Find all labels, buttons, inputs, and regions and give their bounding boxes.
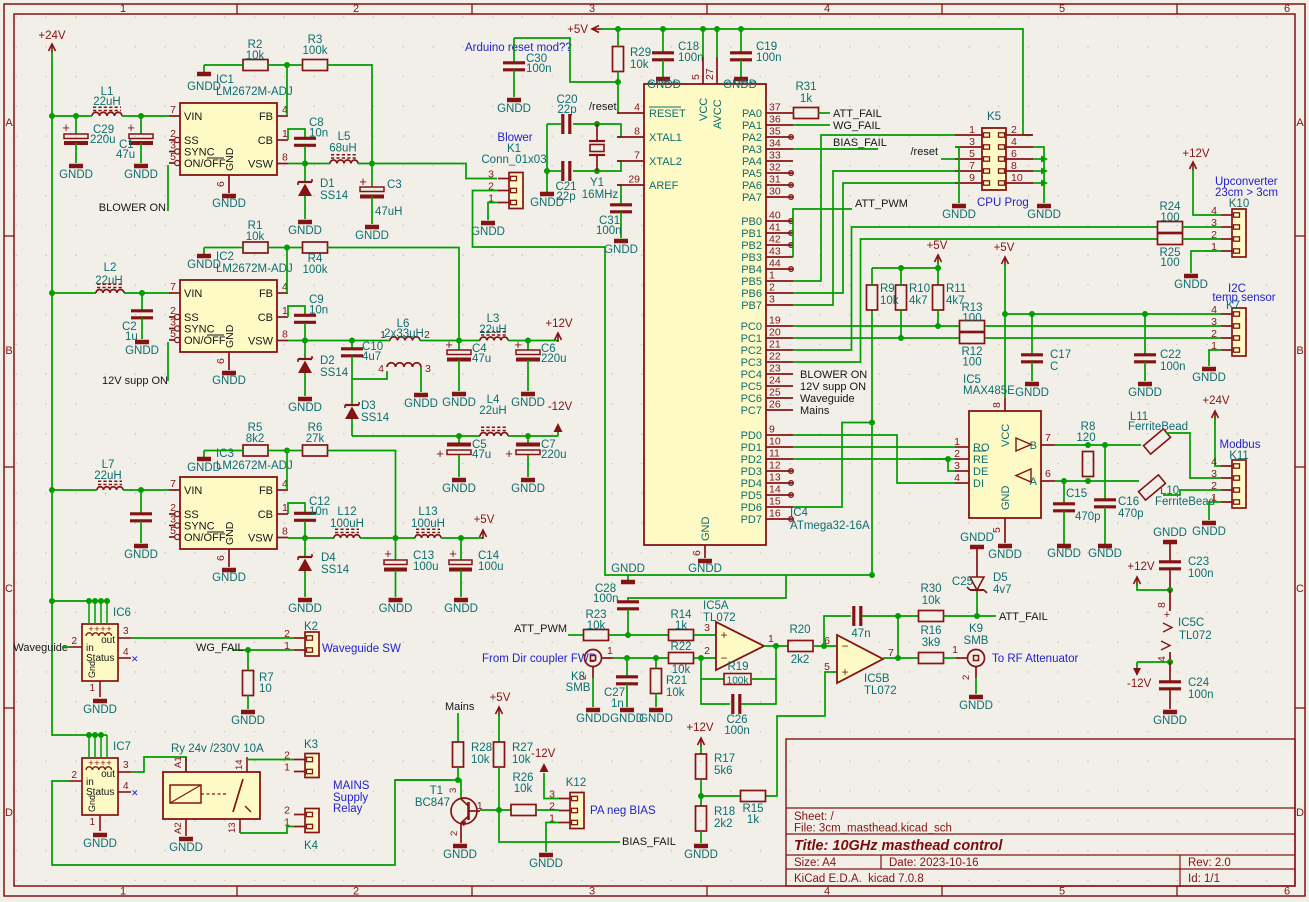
svg-text:K10: K10 (1229, 198, 1249, 210)
capacitor C27 1n (604, 658, 638, 710)
junction (98, 732, 104, 738)
ground (1027, 206, 1061, 221)
op-amp IC5B TL072 (824, 635, 896, 697)
junction (284, 245, 290, 251)
svg-text:PC5: PC5 (741, 381, 762, 393)
svg-text:10k: 10k (514, 783, 533, 795)
svg-text:A: A (1296, 117, 1304, 129)
svg-text:C23: C23 (1188, 556, 1209, 568)
wire (1144, 314, 1146, 354)
wire (52, 115, 92, 117)
junction (456, 433, 462, 439)
wire (1031, 314, 1033, 354)
resistor R7 10 (243, 671, 274, 696)
ferrite bead L11 (1128, 411, 1188, 454)
svg-text:GNDD: GNDD (530, 197, 564, 209)
svg-text:SS14: SS14 (321, 564, 350, 576)
wire (793, 148, 878, 150)
wire (328, 65, 373, 164)
svg-text:PD3: PD3 (741, 466, 762, 478)
svg-text:D4: D4 (321, 552, 336, 564)
svg-text:1: 1 (284, 762, 290, 774)
svg-text:+: + (720, 628, 727, 642)
wire (793, 227, 1158, 350)
svg-text:SS: SS (184, 135, 199, 147)
svg-text:2: 2 (71, 770, 77, 781)
svg-text:3: 3 (969, 136, 975, 148)
svg-text:+: + (449, 546, 457, 561)
svg-text:1: 1 (769, 270, 775, 282)
ground (684, 846, 718, 861)
svg-text:ATT_PWM: ATT_PWM (514, 623, 567, 635)
svg-text:IC5A: IC5A (703, 600, 729, 612)
svg-text:8k2: 8k2 (246, 433, 265, 445)
wire (740, 29, 742, 52)
svg-text:220u: 220u (90, 134, 116, 146)
wire (900, 310, 902, 338)
wire (131, 637, 294, 639)
svg-text:47n: 47n (851, 628, 870, 640)
wire (204, 64, 243, 66)
wire (460, 570, 462, 597)
svg-text:6: 6 (1011, 148, 1017, 160)
connector K4 (284, 805, 319, 853)
svg-text:GNDD: GNDD (288, 603, 322, 615)
svg-text:FerriteBead: FerriteBead (1155, 496, 1215, 508)
svg-text:VSW: VSW (248, 533, 274, 545)
svg-text:470p: 470p (1118, 508, 1144, 520)
svg-text:31: 31 (769, 174, 781, 186)
ground (970, 545, 984, 550)
wire (1033, 182, 1041, 184)
svg-text:MAINS: MAINS (333, 780, 370, 792)
svg-text:GNDD: GNDD (212, 572, 246, 584)
svg-text:GNDD: GNDD (529, 858, 563, 870)
svg-text:GNDD: GNDD (960, 532, 994, 544)
capacitor C4 47u (445, 337, 491, 391)
junction (698, 655, 704, 661)
svg-text:+5V: +5V (927, 240, 948, 252)
wire (1055, 480, 1139, 482)
svg-text:GND: GND (1000, 486, 1012, 511)
svg-text:7: 7 (1045, 432, 1051, 444)
svg-text:R18: R18 (714, 806, 735, 818)
wire (288, 306, 305, 317)
svg-text:100n: 100n (1188, 568, 1214, 580)
op-amp IC5C TL072 power unit (1156, 590, 1212, 662)
capacitor C28 100n (593, 575, 786, 635)
svg-text:PC2: PC2 (741, 345, 762, 357)
svg-text:41: 41 (769, 222, 781, 234)
wire (122, 115, 169, 117)
resistor R29 10k (613, 47, 652, 72)
wire (897, 616, 899, 658)
svg-text:GNDD: GNDD (59, 169, 93, 181)
svg-text:100k: 100k (303, 45, 328, 57)
svg-text:3: 3 (425, 363, 431, 375)
svg-text:SYNC: SYNC (184, 147, 215, 159)
wire (527, 455, 529, 477)
wire (288, 163, 330, 165)
wire (872, 267, 938, 269)
svg-text:22uH: 22uH (94, 470, 122, 482)
wire (655, 658, 657, 669)
resistor R5 8k2 (243, 422, 268, 456)
wire (458, 341, 460, 350)
svg-text:40: 40 (769, 210, 781, 222)
wire (1104, 507, 1106, 544)
resistor R20 2k2 (788, 624, 813, 666)
svg-text:R16: R16 (920, 625, 941, 637)
capacitor C18 100n (652, 29, 704, 77)
resistor R22 10k (669, 641, 694, 676)
wire (793, 209, 852, 257)
svg-text:R28: R28 (471, 742, 492, 754)
svg-text:WG_FAIL: WG_FAIL (833, 120, 881, 132)
wire (395, 779, 458, 781)
wire (921, 458, 948, 460)
junction (245, 647, 251, 653)
wire (420, 340, 480, 342)
wire (499, 810, 620, 842)
svg-text:GNDD: GNDD (169, 842, 203, 854)
wire (547, 170, 562, 172)
svg-text:C22: C22 (1160, 349, 1181, 361)
svg-text:4: 4 (378, 363, 384, 375)
svg-text:2: 2 (170, 128, 176, 140)
svg-text:6: 6 (691, 550, 703, 556)
ground (404, 395, 438, 410)
wire (52, 292, 96, 294)
svg-text:A1: A1 (173, 756, 184, 768)
junction (1002, 311, 1008, 317)
junction (1167, 659, 1173, 665)
wire (546, 124, 548, 192)
ground (444, 600, 478, 615)
svg-text:R31: R31 (795, 81, 816, 93)
wire (985, 325, 1221, 327)
svg-text:PC3: PC3 (741, 357, 762, 369)
connector K11 Modbus (1211, 439, 1261, 508)
wire (328, 248, 460, 342)
junction (615, 26, 621, 32)
svg-text:100n: 100n (596, 225, 622, 237)
wire (662, 60, 664, 77)
wire (52, 51, 107, 735)
svg-text:GNDD: GNDD (187, 81, 221, 93)
wire (741, 646, 776, 704)
diode D4 SS14 (298, 538, 350, 597)
svg-text:2: 2 (353, 886, 359, 898)
svg-text:47u: 47u (472, 449, 491, 461)
svg-text:PC6: PC6 (741, 393, 762, 405)
svg-text:PB0: PB0 (741, 216, 762, 228)
junction (1142, 311, 1148, 317)
svg-text:PA0: PA0 (742, 108, 762, 120)
svg-text:30: 30 (769, 186, 781, 198)
wire (304, 323, 306, 341)
wire (573, 161, 621, 171)
svg-text:27k: 27k (306, 433, 325, 445)
wire (304, 164, 306, 181)
svg-text:CB: CB (258, 312, 273, 324)
svg-text:SYNC: SYNC (184, 521, 215, 533)
capacitor C17 (1021, 314, 1071, 381)
svg-text:ATT_PWM: ATT_PWM (855, 198, 908, 210)
svg-text:GNDD: GNDD (212, 375, 246, 387)
wire (514, 38, 618, 82)
wire (1005, 313, 1221, 315)
wire (536, 809, 559, 811)
junction (104, 598, 110, 604)
svg-text:PB5: PB5 (741, 276, 762, 288)
wire (944, 615, 997, 617)
svg-text:BLOWER ON: BLOWER ON (800, 369, 867, 381)
svg-text:C25: C25 (952, 576, 973, 588)
junction (544, 168, 550, 174)
svg-text:+12V: +12V (1182, 148, 1210, 160)
svg-text:1: 1 (120, 3, 126, 15)
ground (1047, 546, 1081, 560)
svg-text:R19: R19 (727, 661, 748, 673)
svg-text:Sheet: /: Sheet: / (794, 811, 834, 823)
wire (247, 759, 294, 761)
svg-text:Waveguide: Waveguide (800, 393, 855, 405)
svg-text:47u: 47u (116, 149, 135, 161)
wire (985, 337, 1221, 339)
wire (304, 521, 306, 538)
connector K5 CPU Prog (955, 111, 1033, 209)
svg-text:GNDD: GNDD (511, 397, 545, 409)
wire (701, 679, 730, 704)
resistor R6 27k (303, 422, 328, 456)
wire (286, 451, 288, 491)
wire (286, 65, 288, 116)
svg-text:5: 5 (170, 525, 176, 537)
svg-text:20: 20 (769, 327, 781, 339)
svg-text:GNDD: GNDD (684, 849, 718, 861)
svg-text:4: 4 (634, 102, 640, 114)
svg-text:1: 1 (120, 886, 126, 898)
svg-text:GNDD: GNDD (639, 713, 673, 725)
svg-text:LM2672M-ADJ: LM2672M-ADJ (216, 86, 293, 98)
junction (49, 113, 55, 119)
resistor R25 100 (1158, 234, 1183, 270)
svg-text:Date: 2023-10-16: Date: 2023-10-16 (889, 857, 979, 869)
svg-text:22uH: 22uH (479, 405, 507, 417)
ground (1192, 523, 1226, 538)
junction (49, 598, 55, 604)
svg-text:100u: 100u (478, 561, 504, 573)
junction (974, 613, 980, 619)
svg-text:2: 2 (704, 645, 710, 657)
svg-text:47u: 47u (472, 353, 491, 365)
wire (395, 570, 397, 597)
svg-text:13: 13 (227, 822, 238, 833)
svg-text:A2: A2 (173, 822, 184, 834)
ground (125, 342, 159, 357)
svg-text:2: 2 (961, 675, 972, 680)
ground (511, 394, 545, 409)
ground (959, 697, 993, 712)
power -12V (548, 401, 573, 432)
svg-text:8: 8 (282, 329, 288, 341)
svg-text:22uH: 22uH (479, 324, 507, 336)
svg-text:3: 3 (549, 789, 555, 801)
resistor R15 1k (741, 791, 766, 827)
svg-text:XTAL1: XTAL1 (649, 132, 682, 144)
svg-text:BIAS_FAIL: BIAS_FAIL (622, 836, 676, 848)
svg-text:4k7: 4k7 (909, 295, 928, 307)
junction (349, 338, 355, 344)
svg-text:VCC: VCC (698, 98, 710, 121)
svg-text:GND: GND (224, 521, 236, 545)
wire (52, 489, 97, 491)
svg-text:6: 6 (215, 555, 227, 561)
svg-text:GNDD: GNDD (404, 398, 438, 410)
wire (351, 379, 353, 404)
svg-text:K4: K4 (304, 840, 319, 852)
junction (455, 777, 461, 783)
junction (525, 338, 531, 344)
power +24V (1202, 395, 1230, 420)
svg-text:2: 2 (769, 282, 775, 294)
wire (304, 571, 306, 597)
svg-text:DI: DI (973, 478, 984, 490)
capacitor C15 470p (1053, 481, 1101, 544)
svg-text:10n: 10n (309, 305, 328, 317)
svg-text:LM2672M-ADJ: LM2672M-ADJ (216, 263, 293, 275)
power +12V (686, 722, 714, 747)
svg-text:7: 7 (969, 160, 975, 172)
svg-text:Gnd: Gnd (87, 795, 97, 812)
svg-text:1: 1 (282, 502, 288, 514)
svg-text:PA7: PA7 (742, 192, 762, 204)
wire (304, 538, 306, 556)
svg-text:out: out (101, 635, 115, 646)
svg-text:1: 1 (282, 305, 288, 317)
wire (793, 183, 955, 293)
capacitor C1 47u (116, 116, 153, 163)
svg-text:GNDD: GNDD (1128, 387, 1162, 399)
wire (140, 143, 142, 163)
ground (231, 712, 265, 727)
svg-text:GNDD: GNDD (288, 225, 322, 237)
svg-text:CPU Prog: CPU Prog (977, 197, 1029, 209)
junction (700, 26, 706, 32)
svg-text:IC7: IC7 (113, 741, 131, 753)
wire (617, 72, 618, 114)
svg-text:6: 6 (1045, 468, 1051, 480)
junction (660, 26, 666, 32)
wire (304, 373, 306, 396)
svg-text:GNDD: GNDD (511, 483, 545, 495)
svg-text:✕: ✕ (131, 788, 139, 798)
wire (1144, 362, 1146, 381)
svg-text:+: + (1164, 609, 1170, 621)
svg-text:42: 42 (769, 234, 781, 246)
wire (458, 455, 460, 477)
svg-text:4: 4 (123, 781, 129, 792)
wire (123, 489, 169, 491)
svg-text:XTAL2: XTAL2 (649, 156, 682, 168)
svg-text:100n: 100n (593, 593, 619, 605)
svg-text:D2: D2 (320, 355, 335, 367)
junction (302, 338, 308, 344)
svg-text:100: 100 (962, 313, 981, 325)
wire (547, 123, 562, 125)
ground (610, 710, 644, 725)
wire (1033, 170, 1041, 172)
svg-text:R21: R21 (666, 675, 687, 687)
svg-text:FB: FB (259, 111, 273, 123)
svg-text:33: 33 (769, 150, 781, 162)
svg-text:PD6: PD6 (741, 502, 762, 514)
svg-text:GNDD: GNDD (442, 483, 476, 495)
svg-text:PB1: PB1 (741, 228, 762, 240)
power +12V (1127, 561, 1155, 586)
svg-text:4: 4 (824, 3, 830, 15)
svg-text:3: 3 (1211, 217, 1217, 229)
wire (941, 158, 955, 160)
wire (527, 360, 529, 392)
ground (724, 79, 758, 93)
svg-text:ATT_FAIL: ATT_FAIL (833, 108, 882, 120)
svg-text:GNDD: GNDD (83, 838, 117, 850)
svg-text:C: C (1296, 583, 1304, 595)
svg-text:100: 100 (1160, 212, 1179, 224)
wire (883, 657, 918, 659)
svg-text:ON/OFF: ON/OFF (184, 158, 226, 170)
svg-text:2: 2 (424, 329, 430, 341)
wire (268, 247, 302, 249)
svg-text:1k: 1k (675, 620, 687, 632)
svg-text:RE: RE (973, 454, 988, 466)
junction (1085, 478, 1091, 484)
svg-text:Relay: Relay (333, 803, 363, 815)
wire (1215, 418, 1221, 466)
svg-text:8: 8 (1156, 602, 1168, 608)
wire (751, 678, 776, 680)
svg-text:100u: 100u (413, 561, 439, 573)
svg-text:43: 43 (769, 246, 781, 258)
ground (1174, 276, 1208, 291)
svg-text:9: 9 (769, 424, 775, 436)
capacitor C29 220u (62, 116, 115, 163)
resistor R27 10k (494, 742, 534, 767)
wire (955, 147, 959, 203)
capacitor C21 22p (555, 161, 576, 203)
svg-text:PB2: PB2 (741, 240, 762, 252)
wire (62, 646, 69, 648)
wire (602, 29, 1032, 135)
svg-text:22uH: 22uH (93, 96, 121, 108)
wire (1137, 661, 1170, 663)
ground (288, 600, 322, 615)
svg-text:IC5C: IC5C (1178, 617, 1204, 629)
inductor L4 22uH (479, 394, 508, 436)
svg-text:K3: K3 (304, 739, 318, 751)
svg-text:PD1: PD1 (741, 442, 762, 454)
svg-text:100n: 100n (1160, 361, 1186, 373)
svg-text:+12V: +12V (1127, 561, 1155, 573)
svg-text:PD7: PD7 (741, 514, 762, 526)
svg-text:+5V: +5V (474, 514, 495, 526)
svg-text:D1: D1 (320, 178, 335, 190)
svg-text:TL072: TL072 (703, 612, 736, 624)
resistor R4 100k (303, 242, 328, 276)
wire (793, 423, 872, 508)
